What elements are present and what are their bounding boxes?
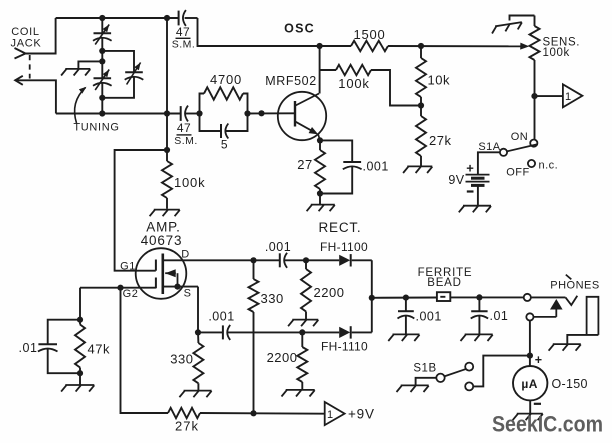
capacitor .001 (emitter bypass) [320,140,352,162]
node: source RC [195,329,201,335]
wire meter to ground [529,400,531,413]
svg-text:FH-1100: FH-1100 [320,240,368,254]
output triangle 1 [563,84,583,107]
pot wiper arrow [520,43,529,50]
G2 lead wire [80,287,156,289]
wire battery to ground [477,185,479,205]
wire: phones return to meter [529,321,531,356]
variable capacitor (tuning gang, right) [125,71,143,73]
tuning pointer arrow [75,88,86,124]
switch S1A ON terminal [530,140,537,147]
dashed jack link [29,55,31,79]
source lead [163,286,198,288]
jack tip spring [566,296,578,305]
svg-text:47: 47 [176,25,190,39]
svg-text:100k: 100k [338,76,369,91]
chassis ground (tuning gang) [61,69,90,76]
svg-text:G1: G1 [120,261,136,273]
wire pot to switch [534,96,536,139]
svg-text:330: 330 [261,291,284,306]
phones terminal (tip) [524,294,531,301]
wire 27k to +9V [200,412,325,415]
svg-text:47: 47 [177,121,191,135]
svg-text:9V: 9V [448,173,464,187]
svg-text:+9V: +9V [348,406,375,421]
resistor 330 (source) [197,332,199,343]
chassis ground (100k) [150,210,180,217]
wire: tank bottom line [56,113,180,115]
capacitor .001 (det 1) [254,259,280,261]
svg-text:27k: 27k [175,419,199,434]
capacitor .001 (filter) [405,298,407,312]
resistor 47k [75,325,85,368]
wire jack sleeve to ground [567,335,598,344]
wire: jack lower to tank bottom [15,80,56,113]
svg-text:OFF: OFF [506,167,530,179]
wire: gang rotor to chassis [78,61,102,68]
resistor 27k (G2 bias) [168,408,200,418]
node: substrate/source [174,284,180,290]
node: tank bottom / main vertical [164,110,170,116]
node [99,48,105,54]
wire to ground [79,373,81,384]
svg-text:.001: .001 [416,310,442,324]
svg-text:S1A: S1A [478,141,500,153]
wire OSC rail to pot [388,45,521,47]
svg-text:O-150: O-150 [552,377,588,391]
svg-text:S.M.: S.M. [174,135,198,147]
+9V triangle 1 [325,402,345,425]
node: .01/47k top [77,317,83,323]
node: emitter resistor bottom [317,190,323,196]
svg-text:n.c.: n.c. [539,160,559,172]
drain lead [163,259,254,261]
node: G2 / bias [117,285,123,291]
svg-text:PHONES: PHONES [550,280,599,292]
node 4700 left [196,110,202,116]
chassis ground (2200 det2) [282,390,315,397]
chassis ground (meter) [513,414,543,421]
node: det1 [303,257,309,263]
chassis ground (2200 det1) [288,320,318,327]
svg-text:OSC: OSC [284,22,315,36]
wire to ferrite bead [372,297,437,299]
svg-text:.001: .001 [363,160,389,174]
svg-text:.01: .01 [490,309,509,323]
wire: corner to OSC line [198,18,352,46]
variable capacitor (tuning gang, top) [101,18,103,33]
capacitor .001 (det 2) [198,331,223,333]
svg-text:100k: 100k [543,47,570,59]
chassis ground (.01 filter) [461,334,493,341]
chassis ground (S1B) [397,385,429,392]
label - (meter) [534,403,541,405]
chassis ground (pot top) [491,22,523,33]
svg-text:FH-1110: FH-1110 [321,340,368,354]
chassis ground (330 source) [179,391,211,398]
svg-text:.01: .01 [19,341,38,355]
phones terminal (return) [526,313,533,320]
svg-text:.001: .001 [208,310,234,324]
diode FH-1100 [306,259,339,261]
svg-text:5: 5 [221,138,228,152]
capacitor C2 47 S.M. (series, to osc network) [180,106,182,121]
node at base lead [258,110,264,116]
wire: G2 to 27k row [121,288,169,413]
ferrite bead FB1 [437,292,450,301]
node: drain [250,257,256,263]
meter M1 uA [529,356,531,366]
node: meter + [527,353,533,359]
svg-text:10k: 10k [428,73,450,88]
chassis ground (jack) [549,344,581,351]
node: .001 filter [403,295,409,301]
node: collector / OSC rail [317,43,323,49]
wire: to MRF502 base [248,112,296,114]
coil jack lower contact arrow [15,76,23,85]
resistor 2200 (det1) [305,260,307,269]
wire to jack tip spring [531,296,566,298]
wire: diode join right [371,260,373,332]
wire: meter node to S1B [473,356,530,387]
node [99,95,105,101]
switch S1B upper contact [465,363,473,371]
node: pot bottom / output [531,93,537,99]
resistor 1500 [351,41,388,51]
diode FH-1110 [302,331,339,333]
wire to output buffer [535,95,563,97]
svg-text:2200: 2200 [267,350,298,365]
switch S1B pole [436,374,444,382]
svg-text:330: 330 [170,352,193,367]
switch S1B blade [444,369,465,376]
svg-text:+: + [535,353,543,367]
variable capacitor (tuning gang, middle) [101,61,103,78]
node: top wire / C1 branch [164,15,170,21]
wire: source to det2 [197,287,199,333]
node: tank bottom / gang [99,110,105,116]
svg-text:S1B: S1B [413,363,436,375]
node: rectified output [369,295,375,301]
node 4700 right [244,110,250,116]
svg-text:+: + [466,160,474,175]
wire: G2 network down [79,288,81,320]
chassis ground (battery) [459,206,491,213]
chassis ground (47k) [61,385,94,392]
resistor 2200 (det2) [301,332,303,347]
resistor 27k (osc) [420,106,422,117]
node: det2 [299,329,305,335]
resistor 4700 (parallel with 5pF) [200,94,205,114]
potentiometer SENS. 100k [534,16,536,27]
resistor 100k (feedback) [320,69,336,71]
resistor 100k (gate leak) [166,150,168,161]
chassis ground (.001 filter) [388,334,419,341]
svg-text:27k: 27k [429,133,451,148]
switch S1A OFF terminal [528,160,535,167]
svg-text:100k: 100k [174,175,205,190]
svg-text:47k: 47k [88,342,110,357]
node: 27k / 330 rail [250,410,256,416]
node: emitter [317,137,323,143]
chassis ground (emitter) [307,205,335,212]
capacitor .01 (G2) [48,320,80,345]
wire pole to battery [478,152,500,174]
svg-text:G2: G2 [123,288,139,300]
label - [467,190,474,192]
resistor 10k [420,46,422,58]
wire: jack to tank top [26,18,56,54]
wire S1B pole to ground [416,378,437,385]
wire: right trimmer branch [102,51,134,72]
wire: tank to G1 [115,150,167,271]
svg-text:COIL: COIL [11,26,39,38]
wire bead to phones [450,296,523,298]
svg-text:MRF502: MRF502 [265,74,317,88]
svg-text:TUNING: TUNING [73,122,119,134]
capacitor 5 (parallel with 4700) [200,114,222,132]
svg-text:S: S [184,288,192,300]
resistor 330 (drain load) [253,260,255,279]
wire to ground [319,194,321,205]
switch S1B lower contact [465,382,473,390]
svg-text:4700: 4700 [210,72,242,87]
svg-text:BEAD: BEAD [427,277,462,289]
svg-text:1: 1 [327,409,334,421]
battery 9V [466,174,490,176]
transistor Q1 MRF502 [278,92,326,140]
capacitor .01 (filter) [478,297,480,311]
svg-text:2200: 2200 [314,285,345,300]
node: top wire / tuning gang [99,15,105,21]
wire: main vertical line [166,18,168,150]
wire: top tank line [56,17,179,19]
accent mark [566,275,572,280]
resistor 27 (emitter) [319,140,321,150]
svg-text:27: 27 [297,157,312,172]
node: 100k top [164,147,170,153]
svg-text:µA: µA [521,377,538,391]
node: 1500 / 10k [418,43,424,49]
svg-text:1: 1 [565,91,572,103]
svg-text:D: D [181,249,189,261]
MOSFET U1 40673 [136,248,187,299]
wire: collector to OSC rail [319,46,321,94]
node: 47k bottom [77,370,83,376]
svg-text:S.M.: S.M. [172,39,196,51]
svg-text:.001: .001 [265,240,291,254]
coil jack upper contact [15,48,26,59]
switch S1A pole [500,149,507,156]
phone jack body [587,297,599,335]
node: .01 filter [476,294,482,300]
svg-text:40673: 40673 [141,233,183,248]
node [99,58,105,64]
plug tip arrow [550,299,563,310]
svg-text:SeekIC.com: SeekIC.com [492,412,603,437]
switch S1A blade [507,144,538,151]
capacitor C1 47 S.M. (series, top) [178,11,180,26]
node: 10k / 27k / 100k [418,102,424,108]
svg-text:ON: ON [511,131,529,143]
chassis ground (27k) [403,166,432,173]
substrate arrow [177,273,179,286]
svg-text:RECT.: RECT. [318,220,361,235]
svg-text:1500: 1500 [353,27,385,42]
